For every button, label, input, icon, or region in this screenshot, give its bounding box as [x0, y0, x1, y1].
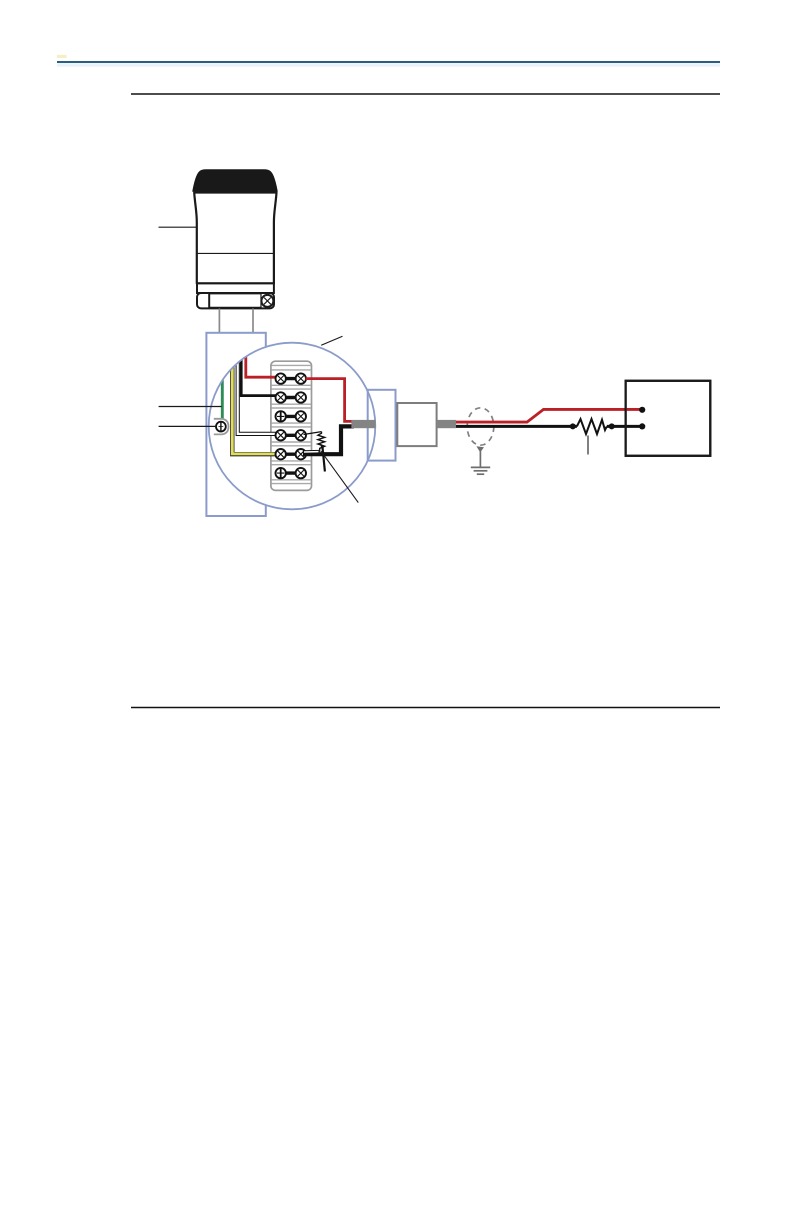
junction node left — [570, 423, 576, 429]
sensor body mid line — [197, 252, 274, 254]
leader from resistor — [321, 451, 358, 502]
enclosure rect (blue) — [206, 333, 265, 516]
black wire (left, into row 2) — [241, 352, 276, 396]
ground clip (gray) — [214, 419, 229, 435]
load box border (over wires) — [626, 381, 711, 456]
terminal row 1 bar — [282, 377, 300, 380]
resistor leader — [587, 436, 589, 455]
terminal row 4 bar — [282, 434, 300, 437]
terminal row 6 bar — [282, 471, 300, 474]
screws row 6 (slotted left) — [276, 468, 306, 478]
terminal node black — [639, 423, 645, 429]
adjustable resistor (vertical zigzag) — [318, 432, 325, 452]
cable gland left (gray) — [351, 420, 375, 428]
conduit rect (blue, right) — [368, 390, 396, 461]
screws row 1 — [276, 373, 306, 383]
shield ellipse (dashed) — [467, 408, 494, 445]
screws row 2 — [276, 392, 306, 402]
housing divider — [208, 293, 210, 308]
sensor bottom housing — [197, 293, 274, 308]
white wire (left, into row 4) — [238, 353, 276, 434]
header rule (blue) — [57, 55, 67, 58]
sensor body — [194, 193, 276, 284]
terminal node red — [639, 407, 645, 413]
potentiometer arrow — [323, 447, 325, 471]
yellow wire (left, into row 5) — [232, 356, 276, 454]
housing inner plate — [209, 294, 261, 308]
screws row 3 (slotted left) — [276, 411, 306, 421]
terminal row 2 bar — [282, 396, 300, 399]
cable gland right (gray) — [437, 420, 457, 428]
bottom body rule (black) — [131, 707, 720, 709]
terminal row 5 bar — [282, 453, 300, 456]
neck tube right line — [252, 309, 254, 333]
resistor R (horizontal zigzag) — [577, 419, 607, 434]
white wire (row 5 stub) — [303, 450, 320, 454]
black wire (gland to row 5) — [303, 426, 354, 454]
terminal block ribs — [272, 365, 311, 483]
leader line to ground screw — [159, 425, 216, 427]
leader line to green wire — [159, 406, 222, 408]
shield ground stem — [479, 449, 481, 467]
housing screw — [261, 295, 273, 307]
black cable wire — [456, 425, 577, 428]
red wire (row 1 to gland) — [306, 379, 355, 422]
leader from circle — [321, 336, 342, 345]
red cable wire — [456, 409, 641, 422]
screws row 5 — [276, 449, 306, 459]
screws row 4 — [276, 430, 306, 440]
white wire (row 4 to resistor top) — [304, 432, 322, 435]
connector body (gray) — [397, 403, 436, 446]
terminal row 3 bar — [282, 415, 300, 418]
junction node right — [609, 423, 615, 429]
ground screw — [216, 422, 226, 432]
black cable wire after resistor — [607, 425, 642, 428]
sensor cap (black lid) — [193, 170, 277, 193]
green wire (to ground screw) — [221, 375, 224, 420]
neck tube left line — [218, 309, 220, 333]
load box — [626, 381, 711, 456]
earth ground symbol — [471, 467, 490, 474]
sensor collar band — [197, 283, 274, 293]
terminal block body — [271, 361, 312, 490]
shield drain triangle — [476, 446, 484, 452]
red wire (left, into row 1) — [246, 350, 276, 377]
top body rule (black) — [131, 93, 720, 95]
zoom circle (blue stroke) — [209, 343, 376, 510]
sensor leader line — [159, 226, 197, 228]
